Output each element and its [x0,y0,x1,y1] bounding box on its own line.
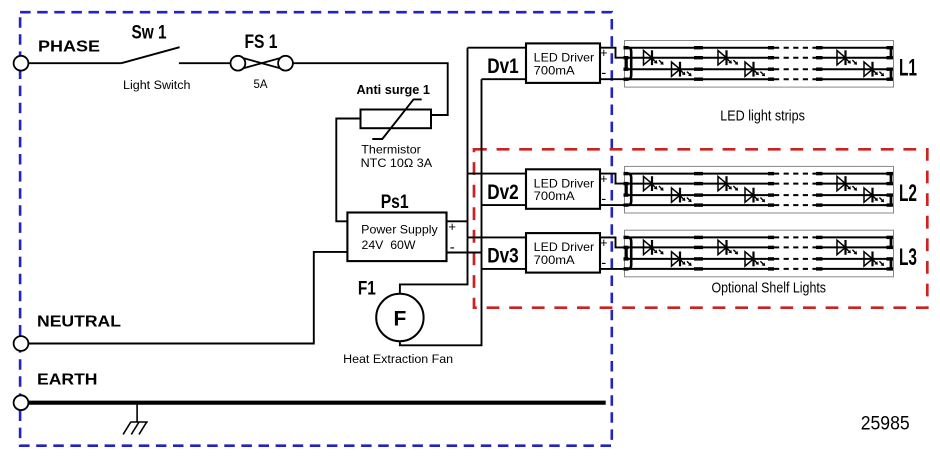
svg-text:700mA: 700mA [534,63,575,77]
svg-text:Anti surge 1: Anti surge 1 [357,83,431,97]
node NEUTRAL (terminal) [14,336,29,351]
wire Dv3 negative input from bus [482,268,527,270]
svg-text:Ps1: Ps1 [381,192,409,213]
wire positive bus (24V +) down to fan [400,48,468,294]
svg-text:+: + [448,219,456,234]
thermistor RT1 "Anti surge 1" (NTC) [361,110,432,129]
wire Dv1 - output to strip [600,78,624,80]
svg-text:EARTH: EARTH [37,372,98,389]
wire Dv1 + output to strip (with jog) [600,48,624,58]
wire Ps1 - output to negative bus [447,252,482,254]
svg-text:FS 1: FS 1 [245,32,278,53]
wire Dv3 positive input from bus [468,236,527,238]
wire Dv2 negative input from bus [482,204,527,206]
svg-text:Heat Extraction Fan: Heat Extraction Fan [343,352,453,366]
svg-text:25985: 25985 [861,413,910,435]
wire neutral to power supply [28,252,347,344]
mains circuit enclosure (blue dashed boundary) [20,12,612,446]
svg-text:24V 60W: 24V 60W [362,238,417,252]
svg-text:Dv3: Dv3 [487,245,519,268]
fan F1 (heat extraction fan) [376,294,423,341]
svg-text:NTC 10Ω 3A: NTC 10Ω 3A [361,156,433,170]
svg-text:F: F [393,307,406,330]
fuse FS1 (5A) [238,57,286,70]
LED light strip L2 [624,166,894,213]
wire Dv1 positive input from bus [468,47,527,49]
wire Dv3 - output to strip [600,268,624,270]
switch Sw1 (light switch, open blade) [121,47,179,63]
svg-text:L2: L2 [899,180,917,207]
svg-text:Thermistor: Thermistor [361,143,421,157]
LED driver Dv1 (700mA) [526,43,600,83]
svg-text:Dv1: Dv1 [487,55,519,78]
LED driver Dv3 (700mA) [526,233,600,273]
svg-text:NEUTRAL: NEUTRAL [37,313,121,330]
wire Dv1 negative input from bus [482,78,527,80]
ground symbol [123,404,148,434]
node EARTH (terminal) [14,395,29,410]
svg-text:Power Supply: Power Supply [361,223,438,237]
svg-text:5A: 5A [254,77,269,91]
svg-text:L1: L1 [899,54,917,81]
wire Dv3 + output to strip (with jog) [600,237,624,247]
svg-text:F1: F1 [358,278,376,299]
svg-text:Light Switch: Light Switch [123,78,191,92]
svg-text:700mA: 700mA [534,189,575,203]
svg-text:L3: L3 [899,244,917,271]
svg-text:Dv2: Dv2 [487,181,519,204]
LED driver Dv2 (700mA) [526,169,600,209]
svg-text:-: - [450,239,455,256]
svg-text:LED light strips: LED light strips [720,109,805,125]
wire thermistor to power supply input [336,119,360,222]
wire Dv2 - output to strip [600,204,624,206]
wire negative bus (24V -) down to fan [400,79,482,345]
wire Ps1 + output to positive bus [447,220,468,222]
wire fuse to thermistor [293,63,448,115]
wire Dv2 positive input from bus [468,173,527,175]
svg-text:700mA: 700mA [534,253,575,267]
LED light strip L3 [624,230,894,277]
LED light strip L1 [624,41,894,88]
wire phase terminal to switch [28,62,121,64]
power supply Ps1 (24V 60W) [347,213,446,262]
svg-text:Optional Shelf Lights: Optional Shelf Lights [712,281,827,297]
node PHASE (terminal) [14,56,29,71]
optional shelf lights enclosure (red dashed boundary) [474,149,927,307]
wire earth bus (thick) [28,401,605,405]
svg-text:Sw 1: Sw 1 [132,23,167,44]
svg-text:PHASE: PHASE [38,39,100,56]
wire Dv2 + output to strip (with jog) [600,174,624,184]
